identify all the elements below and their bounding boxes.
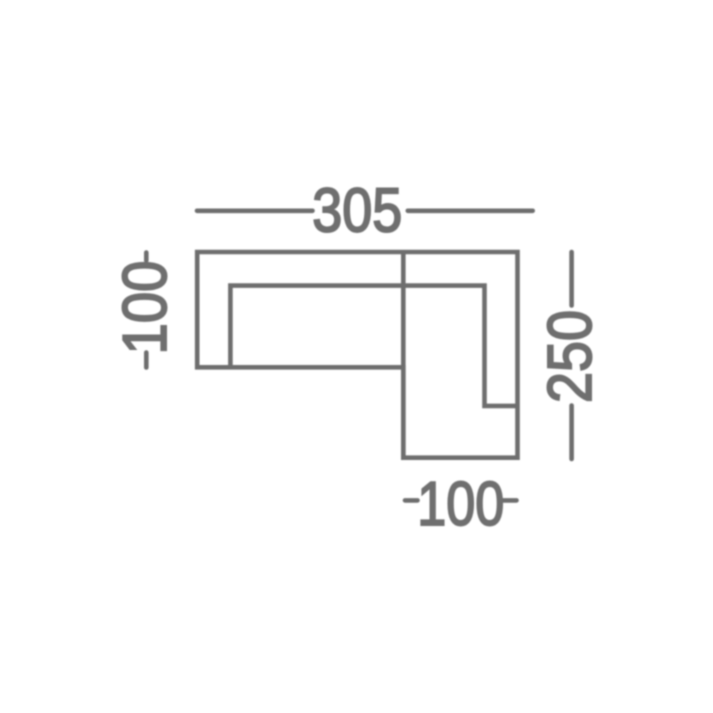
dimension tick bottom-left	[405, 498, 418, 503]
sofa outer outline (L-shape)	[197, 252, 517, 458]
dimension line right-bottom segment	[569, 406, 574, 460]
dimension tick left-top	[144, 253, 149, 261]
svg-text:100: 100	[417, 470, 504, 539]
dimension line top-right segment	[408, 209, 533, 214]
section divider line	[401, 252, 406, 458]
seat inner line	[230, 286, 517, 406]
dimension line right-top segment	[569, 252, 574, 306]
svg-text:305: 305	[312, 176, 402, 245]
dimension tick left-bottom	[144, 353, 149, 368]
svg-text:100: 100	[111, 261, 180, 355]
dimension tick bottom-right	[504, 498, 517, 503]
svg-text:250: 250	[536, 310, 605, 403]
dimension line top-left segment	[197, 209, 313, 214]
